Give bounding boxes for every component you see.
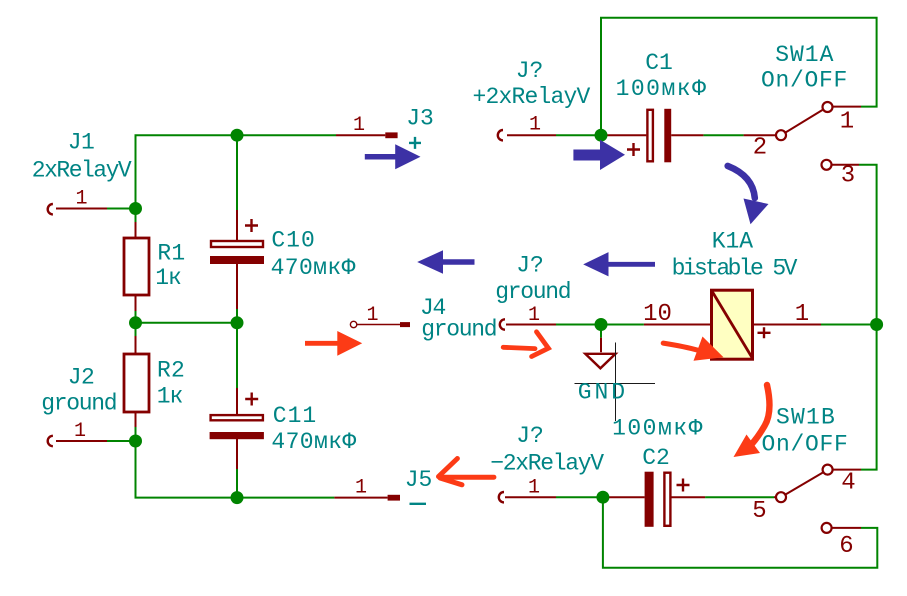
svg-text:100мкФ: 100мкФ <box>612 416 704 442</box>
svg-text:J3: J3 <box>406 106 434 132</box>
svg-text:C2: C2 <box>642 445 670 471</box>
svg-text:K1A: K1A <box>712 229 754 255</box>
svg-text:J?: J? <box>516 253 544 279</box>
svg-text:ground: ground <box>421 317 496 343</box>
svg-text:GND: GND <box>578 380 628 406</box>
svg-text:−2xRelayV: −2xRelayV <box>490 451 604 477</box>
svg-text:1: 1 <box>529 114 541 137</box>
svg-text:C11: C11 <box>273 403 317 429</box>
svg-text:SW1B: SW1B <box>776 405 836 431</box>
svg-text:1: 1 <box>795 301 809 328</box>
svg-text:1: 1 <box>528 477 540 500</box>
svg-text:1: 1 <box>74 420 86 443</box>
svg-text:SW1A: SW1A <box>775 42 834 68</box>
svg-text:1к: 1к <box>157 384 183 410</box>
svg-text:5: 5 <box>752 498 766 525</box>
svg-text:470мкФ: 470мкФ <box>271 429 356 455</box>
svg-text:On/OFF: On/OFF <box>761 432 848 458</box>
svg-text:6: 6 <box>839 533 853 560</box>
svg-text:R1: R1 <box>157 240 185 266</box>
svg-text:J2: J2 <box>68 365 95 391</box>
svg-text:1: 1 <box>353 114 365 137</box>
svg-text:1к: 1к <box>155 265 181 291</box>
svg-text:J?: J? <box>516 423 544 449</box>
svg-text:bistable 5V: bistable 5V <box>672 256 798 282</box>
svg-text:C10: C10 <box>271 228 315 254</box>
svg-text:J5: J5 <box>405 467 433 493</box>
svg-text:10: 10 <box>643 301 672 328</box>
svg-text:100мкФ: 100мкФ <box>616 76 708 102</box>
svg-text:2xRelayV: 2xRelayV <box>32 158 132 184</box>
svg-text:4: 4 <box>841 470 855 497</box>
svg-text:470мкФ: 470мкФ <box>271 255 356 281</box>
svg-text:ground: ground <box>41 391 116 417</box>
svg-text:J?: J? <box>516 58 544 84</box>
svg-text:ground: ground <box>495 279 570 305</box>
svg-text:2: 2 <box>753 135 767 162</box>
svg-text:On/OFF: On/OFF <box>761 68 848 94</box>
svg-text:R2: R2 <box>157 358 185 384</box>
svg-text:1: 1 <box>75 188 87 211</box>
svg-text:1: 1 <box>528 304 540 327</box>
svg-text:C1: C1 <box>645 50 673 76</box>
svg-text:1: 1 <box>366 304 378 327</box>
svg-text:+2xRelayV: +2xRelayV <box>472 84 590 110</box>
svg-text:3: 3 <box>841 163 855 190</box>
svg-text:J1: J1 <box>68 130 95 156</box>
svg-text:1: 1 <box>355 477 367 500</box>
svg-text:1: 1 <box>840 109 854 136</box>
